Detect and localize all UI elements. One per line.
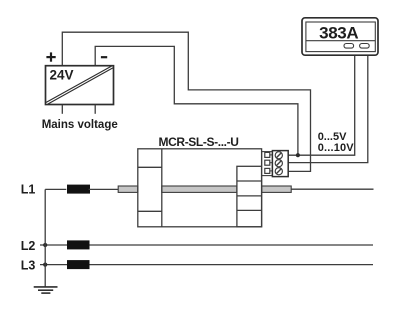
power supply U1 24V box — [46, 66, 114, 105]
screw 2 — [275, 160, 282, 167]
wire from supply + : up, right, down, right, down to terminal 3 — [62, 32, 310, 171]
svg-text:MCR-SL-S-...-U: MCR-SL-S-...-U — [159, 135, 239, 149]
supply + terminal label — [46, 52, 55, 61]
wire terminal 1 to meter left lead — [288, 55, 355, 155]
supply bottom stub left — [61, 105, 63, 114]
svg-text:383A: 383A — [319, 23, 358, 42]
svg-text:L2: L2 — [21, 239, 36, 253]
svg-text:0...5V: 0...5V — [318, 131, 347, 143]
screw terminal block TB1 — [272, 151, 288, 177]
wire L1 fuse to conductor — [89, 188, 119, 190]
thick conductor segment inside transducer — [162, 186, 237, 192]
svg-text:24V: 24V — [50, 67, 74, 82]
fuse F3 — [67, 260, 90, 269]
svg-text:L1: L1 — [21, 183, 36, 197]
wire from supply - : up, right, down, right, down to node A — [95, 46, 298, 155]
node L3 junction dot — [43, 263, 47, 267]
plug pin 3 — [265, 168, 270, 173]
fuse F1 — [67, 185, 90, 194]
screw 3 — [275, 168, 282, 175]
meter button 2 — [360, 44, 370, 49]
screw 1 — [275, 152, 282, 159]
wire L1 down to ground — [44, 189, 46, 286]
svg-text:L3: L3 — [21, 259, 36, 273]
thick conductor segment right of transducer — [262, 186, 292, 192]
fuse F2 — [67, 240, 90, 249]
wire L2 — [40, 244, 373, 246]
node L2 junction dot — [43, 243, 47, 247]
wire terminal 2 to meter right lead — [288, 55, 368, 163]
wire L1 continuing right — [291, 188, 373, 190]
plug pin 1 — [265, 152, 270, 157]
connector plug J1 on transducer — [262, 152, 273, 176]
wire L1 from corner to fuse F1 — [45, 188, 66, 190]
node A junction dot — [296, 153, 300, 157]
svg-text:Mains voltage: Mains voltage — [42, 119, 118, 131]
plug pin tick lines — [270, 155, 273, 171]
plug pin 2 — [265, 160, 270, 165]
supply bottom stub right — [94, 105, 96, 114]
transducer U2 MCR-SL-S-...-U body — [138, 149, 262, 227]
ground — [34, 287, 58, 293]
thick conductor segment left of transducer — [118, 186, 138, 192]
meter P1 383A display — [302, 18, 378, 55]
svg-text:0...10V: 0...10V — [318, 142, 355, 154]
wire L3 — [40, 264, 373, 266]
supply - terminal label — [101, 56, 107, 58]
meter button 1 — [344, 44, 354, 49]
